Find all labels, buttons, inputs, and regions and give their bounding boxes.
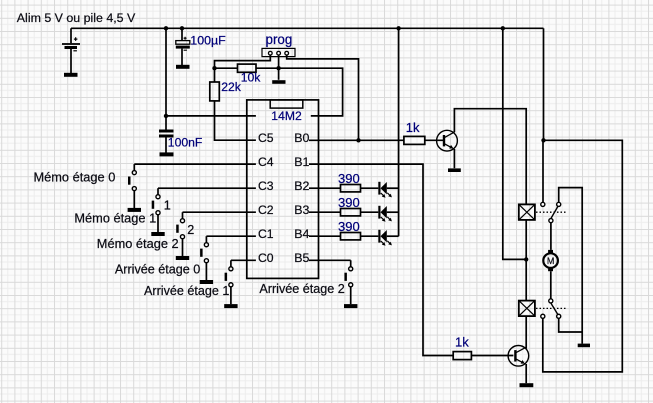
svg-text:1: 1 — [164, 199, 171, 213]
wire +V coil branch — [503, 28, 526, 259]
node rail LED bus — [396, 26, 400, 30]
svg-text:Mémo étage 2: Mémo étage 2 — [97, 236, 179, 251]
svg-text:14M2: 14M2 — [271, 109, 302, 123]
node rail +V coil branch — [501, 26, 505, 30]
wire B3 led — [361, 211, 379, 213]
transistor Q2 — [508, 346, 529, 367]
svg-text:10k: 10k — [241, 70, 262, 84]
wire pin C1 — [206, 235, 256, 237]
svg-text:Alim 5 V ou pile 4,5 V: Alim 5 V ou pile 4,5 V — [17, 11, 136, 25]
wire K1 common to motor — [550, 223, 552, 250]
LED D1 — [379, 182, 398, 198]
wire Q1 emitter — [453, 149, 455, 168]
wire B4 led — [361, 235, 379, 237]
wire coil link — [525, 220, 527, 301]
wire pin C4 — [134, 163, 256, 165]
svg-text:100nF: 100nF — [168, 136, 203, 150]
LED D2 — [379, 206, 398, 222]
switch arrivee etage 1 — [224, 260, 237, 306]
wire B2 led — [361, 187, 379, 189]
node coil junction — [524, 257, 528, 261]
svg-text:2: 2 — [187, 223, 194, 237]
wire pin B0 — [309, 139, 404, 141]
svg-text:B2: B2 — [294, 179, 309, 193]
svg-text:C1: C1 — [258, 227, 274, 241]
wire pin B5 — [309, 259, 351, 261]
LED D3 — [379, 230, 398, 246]
wire pin B4 — [309, 235, 341, 237]
svg-text:390: 390 — [338, 219, 360, 234]
wire 1k to base Q1 — [425, 139, 444, 141]
switch memo etage 2 — [176, 212, 189, 258]
node 22k/10k junction — [212, 66, 216, 70]
wire prog pin2 down — [278, 55, 280, 80]
resistor R6 1k — [404, 136, 425, 144]
wire 22k to C5 — [215, 101, 256, 140]
node right rail — [541, 138, 545, 142]
wire battery top — [70, 28, 72, 43]
connector prog — [262, 48, 295, 56]
wire pin B3 — [309, 211, 341, 213]
svg-text:B1: B1 — [294, 155, 309, 169]
capacitor C1 100uF — [176, 37, 190, 51]
relay K1 contacts — [536, 202, 568, 222]
wire 10k to gnd node — [256, 67, 279, 69]
wire 100nF bottom — [165, 138, 167, 153]
svg-text:C3: C3 — [258, 179, 274, 193]
relay K1 coil — [519, 204, 535, 220]
svg-text:C0: C0 — [258, 251, 274, 265]
node rail 100nF branch — [164, 26, 168, 30]
ground 100uF — [176, 65, 190, 69]
wire rail right end — [543, 28, 545, 140]
svg-text:390: 390 — [338, 171, 360, 186]
resistor R1 22k — [210, 82, 220, 101]
wire right loop — [543, 140, 623, 372]
svg-text:Mémo étage 0: Mémo étage 0 — [34, 170, 116, 185]
svg-text:M: M — [547, 256, 555, 266]
wire pin B1 — [309, 164, 453, 355]
pushbutton switches — [128, 164, 358, 306]
switch memo etage 0 — [128, 164, 141, 210]
wire serial out prog pin3 — [287, 55, 359, 140]
node prog mid ground — [276, 66, 280, 70]
svg-text:prog: prog — [266, 32, 293, 47]
ground Q1 — [448, 168, 461, 172]
ground Q2 — [520, 383, 534, 387]
ground 100nF — [160, 152, 174, 156]
svg-text:B0: B0 — [294, 131, 309, 145]
wire pin C2 — [183, 211, 256, 213]
wire motor to K2 common — [550, 271, 552, 299]
wire Q1 collector — [454, 109, 526, 205]
wire 100nF branch — [165, 28, 167, 130]
wire Q2 emitter — [525, 364, 527, 383]
wire K1 fixed L — [542, 140, 544, 202]
resistor R7 1k — [453, 352, 471, 360]
wire pin C0 — [231, 259, 256, 261]
svg-text:390: 390 — [338, 195, 360, 210]
wire 100uF bottom — [181, 49, 183, 65]
wire 1k to Q2 base — [471, 355, 513, 357]
ground prog — [272, 80, 285, 84]
switch arrivee etage 0 — [200, 236, 213, 282]
wire prog pin1 to node — [215, 55, 271, 82]
wire 0V pin — [279, 68, 343, 116]
svg-text:C2: C2 — [258, 203, 274, 217]
relay K2 contacts — [536, 299, 568, 319]
svg-text:Arrivée étage 0: Arrivée étage 0 — [115, 263, 200, 277]
svg-text:B4: B4 — [294, 227, 309, 241]
node rail 100uF branch — [180, 26, 184, 30]
svg-text:C5: C5 — [258, 131, 274, 145]
wire pin C3 — [158, 187, 256, 189]
wire V+ pin to IC — [166, 115, 256, 117]
svg-text:22k: 22k — [221, 80, 242, 94]
node serial B0 — [356, 138, 360, 142]
switch arrivee etage 2 — [344, 260, 357, 306]
svg-text:B3: B3 — [294, 203, 309, 217]
ground battery — [64, 73, 78, 77]
capacitor C2 100nF — [159, 131, 174, 136]
wire K2 coil to Q2 — [525, 316, 527, 348]
resistor R3 390 — [341, 185, 361, 192]
svg-text:B5: B5 — [294, 251, 309, 265]
wire 100uF top — [181, 28, 183, 40]
resistor R5 390 — [341, 233, 361, 240]
wire node to 10k — [215, 67, 238, 69]
wire K1 fixed R to ground line — [559, 188, 583, 344]
relay K2 coil — [519, 301, 535, 317]
motor M — [543, 250, 558, 271]
ground contacts — [578, 344, 590, 348]
resistor R2 10k — [238, 64, 257, 72]
wire battery bottom — [70, 49, 72, 73]
node V+ junction — [164, 114, 168, 118]
svg-text:Mémo étage 1: Mémo étage 1 — [74, 210, 156, 225]
svg-text:100µF: 100µF — [190, 34, 226, 48]
wire LED bus — [398, 28, 400, 236]
transistor Q1 — [437, 130, 458, 151]
svg-text:C4: C4 — [258, 155, 274, 169]
IC U1 14M2 — [247, 100, 319, 279]
svg-text:Arrivée étage 1: Arrivée étage 1 — [144, 284, 229, 298]
wire K2 fixed R — [559, 318, 583, 332]
svg-text:1k: 1k — [455, 334, 469, 349]
battery BT1 — [62, 37, 80, 51]
svg-text:1k: 1k — [406, 120, 420, 135]
svg-text:Arrivée étage 2: Arrivée étage 2 — [259, 282, 344, 296]
wire pin B2 — [309, 187, 341, 189]
resistor R4 390 — [341, 209, 361, 216]
wire power rail — [71, 27, 544, 29]
switch memo etage 1 — [151, 188, 164, 234]
